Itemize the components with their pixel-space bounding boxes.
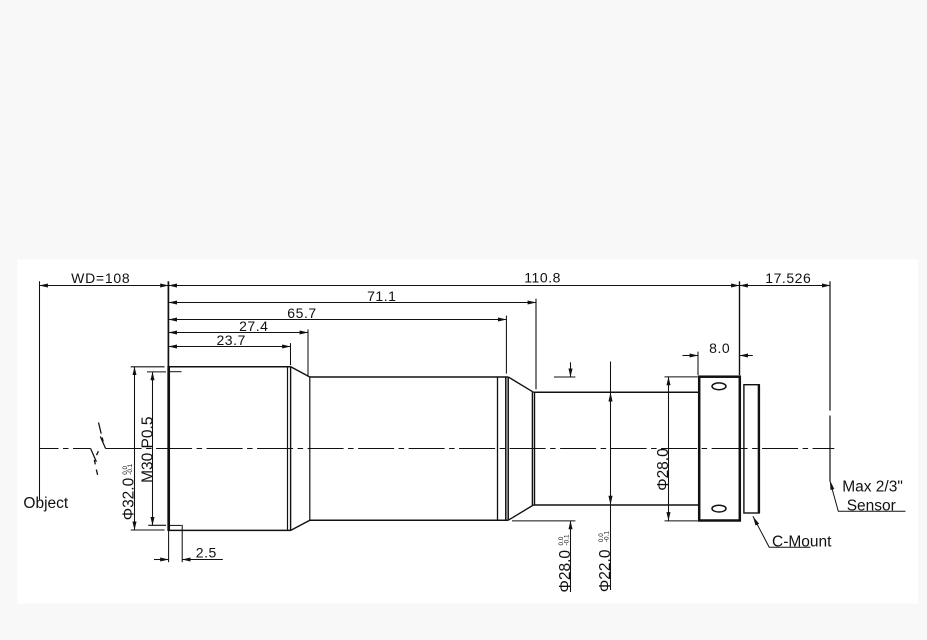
svg-text:Φ28.0: Φ28.0 <box>557 550 574 593</box>
svg-text:2.5: 2.5 <box>196 544 217 560</box>
dim 8.0 left tail <box>683 355 699 357</box>
svg-text:C-Mount: C-Mount <box>772 533 832 550</box>
svg-text:Max 2/3": Max 2/3" <box>842 478 903 495</box>
sensor plane line lower <box>829 416 831 482</box>
dia32 bottom extension <box>131 529 165 531</box>
barrel2 bottom edge <box>310 519 508 521</box>
taper2 top <box>508 377 533 392</box>
dim 65.7 <box>169 319 507 321</box>
M30 top extension <box>147 371 166 373</box>
dia32 top extension <box>131 366 165 368</box>
dim 17.526 <box>740 285 831 287</box>
extension lines <box>40 281 831 562</box>
thin barrel bottom edge <box>533 504 699 506</box>
centerline main segment <box>106 448 835 450</box>
rotated label dia32.0 with tolerance <box>121 463 138 520</box>
svg-text:17.526: 17.526 <box>765 270 811 286</box>
flange oval hole top <box>712 383 726 390</box>
svg-text:M30 P0.5: M30 P0.5 <box>140 417 157 483</box>
taper1 top <box>291 367 310 377</box>
thread line top <box>169 371 182 373</box>
svg-text:-0.1: -0.1 <box>564 534 571 545</box>
svg-text:WD=108: WD=108 <box>71 270 130 286</box>
dim 27.4 <box>169 332 308 334</box>
dim 23.7 <box>169 346 291 348</box>
svg-text:8.0: 8.0 <box>709 340 730 356</box>
barrel2 end double line a <box>505 377 507 520</box>
71.1 extension <box>535 299 537 390</box>
thin barrel start double line a <box>531 392 533 505</box>
svg-text:Φ28.0: Φ28.0 <box>655 448 672 491</box>
dim 8.0 right tail <box>740 355 753 357</box>
svg-text:65.7: 65.7 <box>287 305 316 321</box>
svg-text:110.8: 110.8 <box>524 270 561 286</box>
flange oval hole bottom <box>712 505 726 512</box>
dim dia28tol upper segment <box>570 362 572 377</box>
taper1 bottom <box>291 520 310 530</box>
front face <box>167 366 170 531</box>
dim dia28 flange vertical <box>668 377 670 521</box>
8.0 left extension <box>697 352 699 376</box>
rotated label dia28.0 with tolerance <box>557 534 574 592</box>
dim dia32 vertical <box>134 367 136 530</box>
svg-text:71.1: 71.1 <box>367 288 396 304</box>
svg-text:-0.1: -0.1 <box>127 463 134 474</box>
dim dia22 vertical <box>610 362 612 591</box>
lens body outlines <box>169 366 760 531</box>
barrel1 end groove <box>287 367 289 531</box>
centerline left segment <box>40 448 91 450</box>
thin barrel top edge <box>533 391 699 393</box>
svg-text:23.7: 23.7 <box>216 332 245 348</box>
rotated label dia22.0 with tolerance <box>597 531 614 592</box>
dia28tol bottom extension <box>512 520 575 522</box>
barrel1 top edge <box>169 366 291 368</box>
dimension texts <box>71 270 811 561</box>
dim dia28tol lower segment <box>570 521 572 592</box>
thin barrel start double line b <box>534 392 536 505</box>
svg-text:-0.1: -0.1 <box>603 531 610 542</box>
barrel2 end double line b <box>507 377 509 520</box>
barrel2 groove <box>497 377 499 520</box>
dia28tol top extension <box>554 376 576 378</box>
leader C-Mount <box>753 516 811 547</box>
2.5 right extension <box>181 525 183 562</box>
rotated label dia28.0 flange <box>655 448 672 491</box>
M30 bottom extension <box>148 524 166 526</box>
object plane line <box>39 281 41 499</box>
sensor plane line upper <box>829 281 831 410</box>
23.7 extension <box>290 343 292 365</box>
flange rear extension <box>739 281 741 375</box>
dia22 arrowheads <box>608 392 612 505</box>
27.4 extension <box>307 329 309 375</box>
leader Max sensor <box>830 481 906 512</box>
2.5 left extension <box>168 530 170 562</box>
barrel2 top edge <box>310 376 508 378</box>
dim 71.1 <box>169 302 536 304</box>
dim 2.5 right tail <box>182 559 223 561</box>
dia28 flange top extension <box>665 376 698 378</box>
dim 2.5 left tail <box>154 559 169 561</box>
svg-text:Φ22.0: Φ22.0 <box>597 549 614 592</box>
flange body <box>699 377 740 521</box>
c-mount right face thick <box>758 385 760 513</box>
drawing canvas <box>18 260 919 604</box>
front face extension <box>167 281 169 366</box>
c-mount body <box>744 385 759 513</box>
break symbol <box>91 423 106 475</box>
dia28 flange bottom extension <box>665 520 698 522</box>
dim WD=108 <box>40 285 169 287</box>
barrel2 start line <box>309 377 311 520</box>
thread line bottom <box>169 524 182 526</box>
rotated label M30 P0.5 <box>140 417 157 483</box>
svg-text:Object: Object <box>23 495 68 512</box>
dimension lines with arrows <box>40 286 831 593</box>
65.7 extension <box>505 316 507 374</box>
barrel1 bottom edge <box>169 529 291 531</box>
dim M30 vertical <box>152 372 154 525</box>
barrel1 end line <box>290 367 292 531</box>
svg-text:Sensor: Sensor <box>847 497 896 514</box>
taper2 bottom <box>508 505 533 520</box>
svg-text:Φ32.0: Φ32.0 <box>121 477 138 520</box>
dim 110.8 <box>169 285 740 287</box>
